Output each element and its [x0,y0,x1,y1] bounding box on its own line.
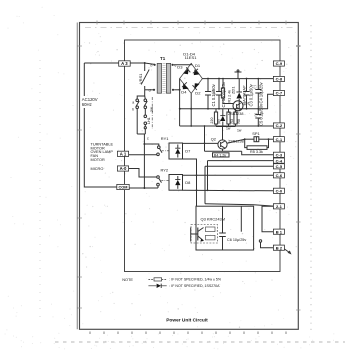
svg-text:C-1: C-1 [276,137,283,142]
pin box C-2 [273,123,284,128]
svg-text:b: b [132,108,134,112]
varistor VRS1 [138,63,149,90]
svg-text:A 3: A 3 [121,61,128,66]
pin box C-7 [273,90,284,95]
pin box C-9 [273,61,284,66]
diode D4 [181,83,188,94]
signal line to pin C-4 [208,160,274,162]
DC plus bus [202,78,280,80]
svg-text:C-9: C-9 [276,61,283,66]
svg-text:A-0: A-0 [120,166,127,171]
svg-text:c: c [147,137,149,141]
pin box A-0 [117,166,128,171]
sheet border frame [77,23,298,330]
capacitor C5 0.1u/50v [255,103,263,126]
relay RY2 contact [129,167,169,188]
circuit board boundary rectangle [125,40,281,272]
svg-text:A 1: A 1 [120,152,127,157]
resistor R8 1k 1w [234,109,242,133]
node junction at VRS1 top [144,62,146,64]
pin box C-5 [273,164,284,169]
wire relay supply to Q2 [183,142,219,144]
svg-text:R2: R2 [218,119,222,124]
wire RY1 coil low to driver bus [183,159,197,206]
svg-text:C-0: C-0 [276,189,283,194]
svg-text:D8: D8 [185,180,191,185]
pin box COM [117,184,129,189]
DC common bus [180,108,268,110]
wire secondary bottom to bridge left vertex [174,89,179,91]
pin box A3 [119,61,131,66]
svg-text:b: b [151,63,153,67]
svg-text:RY2: RY2 [161,167,169,172]
border zone tick marks [78,21,301,311]
wire Q2 base line [204,126,206,151]
svg-text:1w: 1w [226,127,231,131]
svg-text:1w: 1w [237,129,242,133]
pin box C-6 [273,173,284,178]
svg-text:R8: R8 [237,119,241,124]
svg-text:VRS1: VRS1 [138,73,143,84]
jumper pin 2-1 to pin B-1 [262,206,274,231]
svg-text:D1: D1 [195,63,201,68]
capacitor C2 1000u/25v [216,78,226,110]
svg-text:Power Unit Circuit: Power Unit Circuit [166,318,208,324]
pin box C-1 [273,137,284,142]
thermal cutout LH1 mechanical link [147,97,154,129]
polarity marks [211,85,257,116]
interlock switch a-b [132,99,139,134]
wire VRS1 to interlock branches [137,90,145,99]
svg-text:C-2: C-2 [276,123,283,128]
svg-text:Q2: Q2 [211,137,216,141]
svg-text:ZD1: ZD1 [230,86,235,94]
svg-text:3W: 3W [150,106,154,112]
svg-text:: IF NOT SPECIFIED, 1SS270A: : IF NOT SPECIFIED, 1SS270A [169,284,220,288]
wire bridge bottom vertex to minus bus [190,93,192,126]
NOTES [122,277,133,282]
Q2 emitter stub [222,149,224,151]
svg-text:C-8: C-8 [276,77,283,82]
AC sense line to pin C-2 [180,125,274,127]
svg-text:C-3: C-3 [276,153,283,158]
signal line to pin C-5 [205,165,273,167]
AC neutral rail [84,63,117,187]
wire COM to RY2 contact [129,187,158,189]
bridge rectifier D1-D4 11ES1 [177,51,202,95]
digital transistor Q3 KRC243M [191,206,254,250]
svg-text:(-): (-) [211,90,215,93]
diode D5 [220,109,225,127]
svg-text:11ES1: 11ES1 [185,55,198,60]
node at COM line [143,187,145,189]
svg-text:R3: R3 [230,119,234,124]
svg-text:C1 0.1µ/50v: C1 0.1µ/50v [211,83,216,106]
pin box A-1 [117,151,128,156]
scan page-edge dotted lines [310,25,312,332]
svg-text:D2: D2 [195,91,201,96]
capacitor C6 10u/25v [219,206,246,250]
AC line wire from source to A3 [84,62,118,64]
capacitor C1 0.1u/50v [205,78,216,110]
pin box B-2 [273,245,284,250]
svg-text:R4 1.2k: R4 1.2k [214,153,226,157]
relay coil box with diode D7 [169,143,190,159]
svg-text:COM: COM [119,186,128,190]
svg-text:C-7: C-7 [276,91,283,96]
pin box C-3 [273,152,284,157]
svg-text:SP1: SP1 [252,131,259,136]
primary bottom pin d [145,89,154,91]
svg-text:a: a [132,101,134,105]
svg-text:T1: T1 [160,56,166,61]
note diode symbol [148,284,166,288]
diode D2 [194,83,201,95]
node at RY1 takeoff [143,143,145,145]
wire secondary top to bridge AC [174,63,192,64]
pin box B-1 [273,229,284,234]
resistor R5 3.3k parallel [245,139,269,154]
svg-text:NOTE: NOTE [122,277,133,282]
pin box C-0 [273,188,284,193]
svg-text:MICRO: MICRO [91,167,104,171]
resistor R3 1k 1w [226,109,234,131]
wire C-7 pin into common bus [268,94,274,109]
svg-text:RY1: RY1 [161,136,169,141]
capacitor C4 10u/25v [255,78,263,110]
svg-text:AC120V: AC120V [82,97,98,102]
svg-text:d: d [149,88,151,92]
exit arrow from B-2 [284,249,291,255]
wire interlocks join down to relay column [137,133,145,135]
diode D1 [194,63,201,75]
capacitor C3 0.1u/50v [244,78,254,110]
pin box 2-1 [273,204,284,209]
transistor Q2 2SB1238 [211,137,244,149]
RIGHTPINS [273,61,284,251]
svg-text:D7: D7 [185,149,190,154]
interlock switch c-d [144,99,147,134]
pin box C-4 [273,158,284,163]
svg-text:220: 220 [210,118,214,124]
svg-text:60Hz: 60Hz [82,102,92,107]
relay RY1 contact [129,136,169,156]
stub to pin B-2 [259,240,274,248]
svg-text:(-): (-) [253,113,257,116]
transformer T1 [149,56,177,94]
svg-text:2-1: 2-1 [276,204,283,209]
diode D3 [177,65,188,75]
note resistor symbol [148,278,166,281]
wire Q2 to buzzer net [227,139,245,143]
svg-text:LH1: LH1 [147,117,151,124]
wire Q3 to pin 2-1 [205,204,274,206]
svg-text:D4: D4 [181,90,187,95]
wire RY2 coil low to pin line [183,189,274,192]
buzzer SP1 [244,131,273,142]
pin box C-8 [273,76,284,81]
svg-text:(-): (-) [253,85,257,88]
svg-text:MOTOR: MOTOR [91,158,105,162]
svg-text:C-5: C-5 [276,164,283,169]
svg-text:R5 3.3k: R5 3.3k [250,150,263,154]
svg-text:C4 10µ/25v: C4 10µ/25v [259,82,264,104]
AC source label [81,96,100,108]
wire A3 to T1 primary [130,63,155,64]
svg-text:B 1: B 1 [276,229,283,234]
svg-text:C-4: C-4 [276,158,283,163]
wire bridge left vertex down to AC sense line [179,90,181,126]
tier2 collector join to Q2 [216,126,236,128]
svg-text:Q3 KRC243M: Q3 KRC243M [201,216,226,221]
svg-text:: IF NOT SPECIFIED, 1/4w ± 5%: : IF NOT SPECIFIED, 1/4w ± 5% [169,278,222,282]
resistor R2 220 1w [210,109,222,127]
transistor Q1 2SB1238 [228,101,250,116]
resistor R1 2.4k [221,78,233,104]
svg-text:B 2: B 2 [276,245,283,250]
svg-text:C5 0.1µ/50v: C5 0.1µ/50v [259,103,264,126]
svg-text:C-6: C-6 [276,173,283,178]
wire RY2 coil high to pin C-6 [183,174,274,176]
relay coil box with diode D8 [169,175,191,191]
resistor R4 1.2k [205,151,274,157]
load name labels [91,143,114,171]
test point stub [235,70,242,79]
zener ZD1 [230,79,242,109]
svg-text:C6 10µ/25v: C6 10µ/25v [227,238,246,242]
